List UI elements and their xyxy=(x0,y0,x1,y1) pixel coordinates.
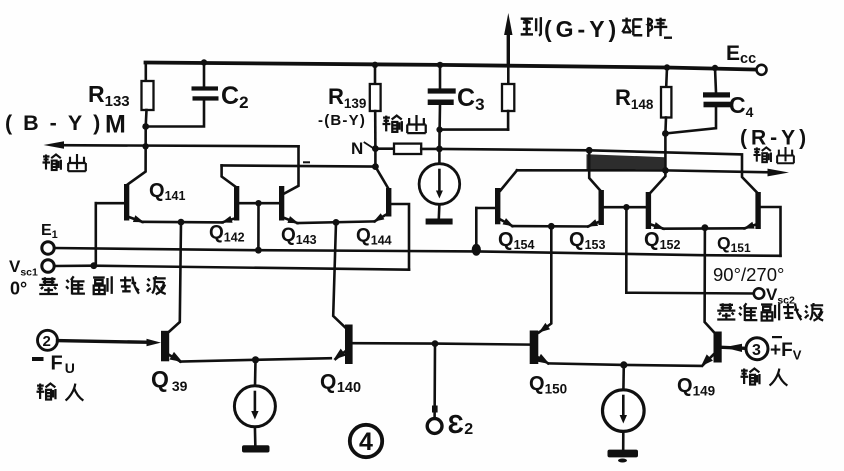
svg-text:R139: R139 xyxy=(328,84,366,111)
svg-text:Q152: Q152 xyxy=(644,229,680,252)
wire (R-Y) output arrow xyxy=(665,170,770,172)
label 到(G-Y)矩阵 xyxy=(521,16,672,42)
arrow to (G-Y) matrix xyxy=(504,13,512,35)
current source CS1 (demodulator bias) xyxy=(419,149,460,225)
svg-text:E1: E1 xyxy=(41,222,58,241)
svg-text:2: 2 xyxy=(43,333,51,350)
terminal circled 2 xyxy=(38,330,58,350)
wire Q153 collector drop xyxy=(589,150,600,191)
ground (CS3) xyxy=(608,450,639,458)
wire Vsc1 line xyxy=(54,266,409,270)
resistor (N to matrix node) xyxy=(375,144,439,154)
svg-text:(G-Y): (G-Y) xyxy=(544,16,620,42)
svg-text:0°: 0° xyxy=(10,279,27,299)
resistor R133 xyxy=(142,63,154,127)
terminal circled 3 xyxy=(746,338,768,360)
transistor Q150 xyxy=(530,331,552,368)
wire M to output line to Q141 collector xyxy=(127,127,146,185)
svg-text:3: 3 xyxy=(752,342,761,359)
wire line B: Q154/Q152 collectors xyxy=(517,169,665,172)
svg-text:C2: C2 xyxy=(221,82,249,112)
wire Q154 base to E1 line xyxy=(475,208,478,251)
node R148/C4 junction xyxy=(662,130,669,137)
transistor Q152 xyxy=(646,192,666,232)
resistor R139 xyxy=(370,62,381,149)
transistor Q153 xyxy=(586,190,604,230)
svg-text:C3: C3 xyxy=(457,84,485,114)
label 输出 (B-Y output) xyxy=(43,154,86,171)
svg-text:FU: FU xyxy=(51,353,75,377)
svg-text:+FV: +FV xyxy=(770,340,802,363)
svg-text:Vsc2: Vsc2 xyxy=(766,285,795,307)
transistor Q151 xyxy=(742,192,760,232)
wire -Fu input line xyxy=(58,341,151,343)
wire Q151 base to E1 line end xyxy=(761,207,781,256)
wire emitter bus Q154-Q153 to Q150 collector xyxy=(513,225,589,228)
transistor Q141 xyxy=(96,184,145,226)
wire emitter bus Q143-Q144 to Q140 collector xyxy=(298,221,375,223)
svg-text:(B-Y): (B-Y) xyxy=(5,111,111,135)
node M xyxy=(142,123,149,130)
svg-text:Q140: Q140 xyxy=(320,371,361,397)
wire Q141 base to Vsc1 line xyxy=(95,203,98,266)
wire emitter bus Q150-Q149 xyxy=(548,363,701,366)
transistor Q140 xyxy=(331,325,353,365)
svg-text:Vsc1: Vsc1 xyxy=(9,257,38,279)
svg-text:Q150: Q150 xyxy=(529,373,567,397)
terminal Ecc xyxy=(757,65,767,75)
wire emitter bus Q141-Q142 to Q139 collector xyxy=(143,221,223,224)
wire Q149 base to circled 3 xyxy=(722,347,746,348)
wire emitter bus Q152-Q151 to Q149 collector xyxy=(664,227,745,230)
capacitor C4 xyxy=(665,65,730,134)
svg-text:N: N xyxy=(351,139,363,158)
svg-text:(R-Y): (R-Y) xyxy=(740,127,810,150)
svg-text:Q149: Q149 xyxy=(677,375,715,399)
svg-text:Q141: Q141 xyxy=(149,180,185,203)
label 输入 (left) xyxy=(37,384,84,401)
wire Q153/Q152 base tie to Vsc2 xyxy=(604,206,646,209)
svg-text:Ɛ2: Ɛ2 xyxy=(448,409,474,439)
terminal Vsc1 xyxy=(42,260,54,272)
label 基准副载波 (right) xyxy=(717,303,823,321)
label +Fv (with overbar) xyxy=(772,336,782,338)
wire E1 line xyxy=(54,248,780,256)
svg-text:90°/270°: 90°/270° xyxy=(713,264,784,285)
terminal E1 xyxy=(42,242,54,254)
svg-text:Q151: Q151 xyxy=(717,233,751,255)
svg-text:Q153: Q153 xyxy=(569,229,605,252)
label 输出 (R-Y output) xyxy=(753,147,793,163)
terminal e2 xyxy=(427,419,442,434)
label 输入 (right) xyxy=(741,369,788,386)
node N xyxy=(372,145,379,152)
svg-text:Q39: Q39 xyxy=(151,366,188,394)
capacitor C3 xyxy=(428,62,456,130)
svg-text:4: 4 xyxy=(359,428,373,456)
capacitor C2 xyxy=(146,59,219,126)
transistor Q144 xyxy=(372,167,392,225)
svg-text:C4: C4 xyxy=(729,92,754,120)
svg-text:R148: R148 xyxy=(615,85,654,112)
wire down to e2 terminal xyxy=(433,344,436,419)
ink smear between lines xyxy=(587,154,666,170)
transistor Q154 xyxy=(476,170,517,229)
resistor R148 xyxy=(661,64,671,133)
wire (B-Y) output line with left arrow xyxy=(60,145,299,146)
svg-text:R133: R133 xyxy=(88,81,130,110)
current source CS3 xyxy=(603,365,645,449)
wire R148 junction down to (R-Y) output node xyxy=(651,134,666,193)
wire Q140 base / Q150 base / e2 tie xyxy=(353,343,530,344)
svg-text:Q142: Q142 xyxy=(209,223,245,245)
wire collector line Q142/Q144 to node N xyxy=(303,161,310,163)
svg-text:Q144: Q144 xyxy=(356,226,392,248)
label -Fu xyxy=(32,357,44,361)
svg-text:-(B-Y): -(B-Y) xyxy=(318,112,366,129)
transistor Q139 xyxy=(161,331,185,366)
wire emitter bus Q139-Q140 xyxy=(181,358,331,361)
wire Ecc supply rail xyxy=(146,63,758,70)
terminal Vsc2 xyxy=(754,288,764,298)
ground (CS2) xyxy=(242,445,270,452)
resistor (G-Y feed, unlabeled) xyxy=(502,30,514,130)
wire Q144 base to Vsc1 line end xyxy=(391,204,409,270)
wire Q142/Q143 base tie to E1 line xyxy=(239,202,279,205)
transistor Q142 xyxy=(220,165,239,226)
current source CS2 xyxy=(234,360,275,445)
wire line A: matrix node to Q153/Q151 collectors xyxy=(439,149,757,193)
transistor Q149 xyxy=(698,332,722,370)
transistor Q143 xyxy=(279,146,300,226)
label circled 4 xyxy=(350,425,382,457)
svg-text:Q143: Q143 xyxy=(281,225,317,247)
label 输出 (N output) xyxy=(383,115,426,133)
wire C3 node to matrix junction xyxy=(439,130,508,149)
svg-text:Ecc: Ecc xyxy=(726,42,756,67)
svg-text:Q154: Q154 xyxy=(498,229,534,252)
